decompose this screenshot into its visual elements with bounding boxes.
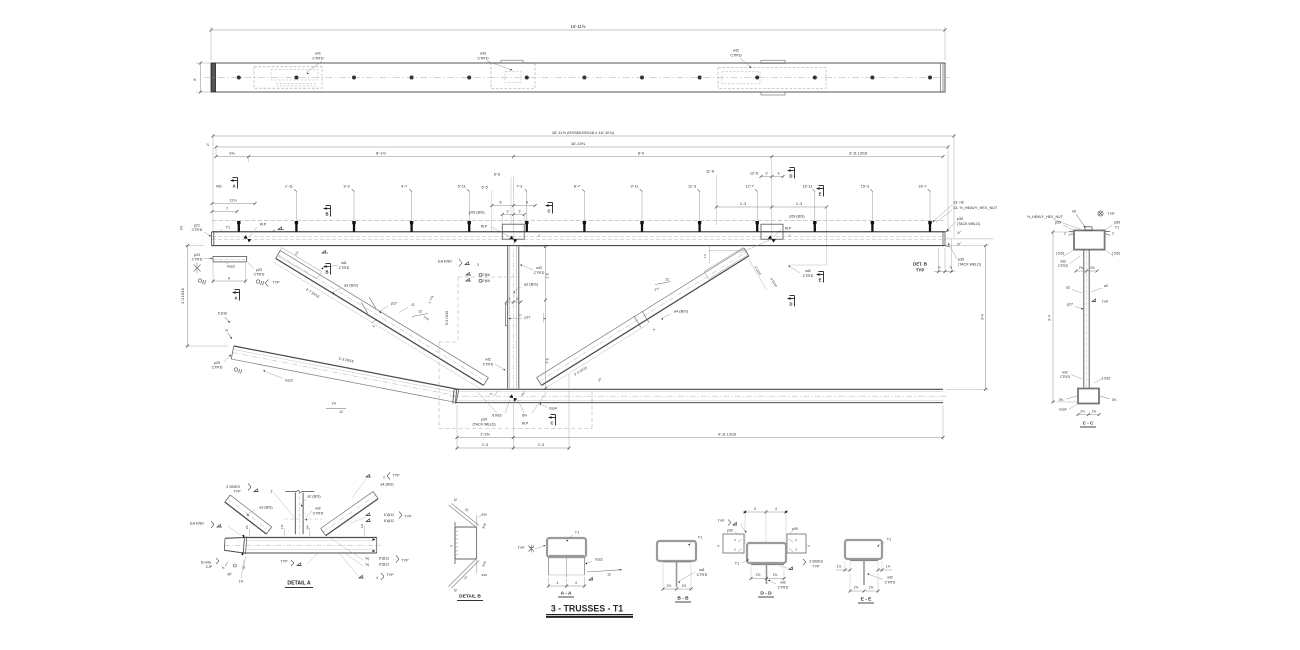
svg-text:CTR'D: CTR'D	[192, 258, 203, 262]
svg-text:9: 9	[228, 277, 230, 281]
svg-text:2: 2	[509, 297, 511, 301]
svg-text:9'-11: 9'-11	[630, 185, 638, 189]
svg-text:hss4: hss4	[549, 407, 557, 411]
svg-text:5 3/16: 5 3/16	[218, 312, 227, 316]
elevation: a4 parallel dimension line with rotated dim 3'-4 15/16	[544, 324, 648, 389]
svg-text:2⅞: 2⅞	[667, 584, 672, 588]
svg-text:3/16: 3/16	[481, 573, 487, 577]
detail A: bottom right weld note	[359, 577, 364, 579]
svg-text:1'-3: 1'-3	[796, 202, 802, 206]
detail A: hss3 stub at left	[225, 537, 244, 540]
svg-text:TYP: TYP	[405, 515, 413, 519]
svg-text:p35: p35	[957, 217, 963, 221]
svg-text:TYP: TYP	[718, 519, 726, 523]
svg-text:wt2: wt2	[1062, 371, 1067, 375]
elevation: member hss3 sloping left	[231, 359, 456, 403]
elevation: vertical dim 1'-6 / 2'-6 right of hanger	[521, 246, 548, 248]
elevation: overall dim 16'-11 5/8 (HSS8X4X5/16 x 16'-10 3/4)	[213, 135, 954, 137]
section D-D: top dim 4 | 4	[744, 510, 746, 544]
svg-text:⅞: ⅞	[206, 143, 209, 147]
elevation: weld all-around symbol at left (K)	[194, 265, 198, 269]
svg-text:3'-3: 3'-3	[343, 185, 349, 189]
svg-text:TYP: TYP	[281, 560, 289, 564]
elevation: wt2 stiffener outline on a4	[704, 248, 748, 280]
svg-text:2'@6: 2'@6	[482, 273, 490, 277]
svg-text:7'-6: 7'-6	[546, 358, 550, 364]
svg-text:E: E	[819, 278, 822, 283]
elevation: hanger dim 2|2	[506, 301, 520, 303]
svg-text:⅛: ⅛	[222, 566, 225, 570]
svg-text:a4 (B/S): a4 (B/S)	[674, 310, 689, 314]
svg-text:6"@12: 6"@12	[379, 557, 389, 561]
svg-text:4: 4	[754, 507, 756, 511]
elevation: W.P extension line right of chord end	[945, 238, 993, 240]
svg-text:CTR'D: CTR'D	[697, 573, 708, 577]
svg-text:hss2: hss2	[595, 558, 603, 562]
svg-text:D: D	[789, 302, 792, 307]
section C-C: p59 side plate wings	[1069, 231, 1074, 233]
svg-text:4: 4	[450, 545, 454, 547]
svg-text:6'-6: 6'-6	[494, 173, 500, 177]
svg-text:15'-3: 15'-3	[861, 185, 869, 189]
svg-text:wt1: wt1	[699, 568, 705, 572]
section C-C: weld 3/8 TYP	[1092, 301, 1096, 303]
svg-text:4: 4	[575, 581, 577, 585]
svg-text:p23: p23	[194, 253, 200, 257]
elevation: circle-parallel symbol with TYP	[256, 280, 259, 283]
elevation: section flag D upper	[787, 169, 791, 172]
svg-text:TYP: TYP	[387, 573, 395, 577]
svg-text:8⅜: 8⅜	[522, 414, 527, 418]
svg-text:16'-11⅝ (HSS8X4X5/16 x 16'-10¾: 16'-11⅝ (HSS8X4X5/16 x 16'-10¾)	[552, 130, 615, 135]
svg-text:4⅝: 4⅝	[180, 225, 184, 230]
elevation: vertical dim 2'-3 15/16 left side	[185, 245, 204, 247]
detail A: vertical a2 section	[294, 493, 296, 535]
svg-text:E: E	[819, 192, 822, 197]
plan view: splice tabs at wt2	[761, 60, 785, 63]
section D-D: dim 2 7/8 | 2 7/8	[750, 566, 752, 580]
svg-text:45°: 45°	[227, 573, 233, 577]
svg-text:9'-11 13/16: 9'-11 13/16	[718, 433, 736, 437]
section D-D: 3 SIDES TYP weld	[789, 569, 793, 571]
svg-text:2: 2	[1112, 232, 1114, 236]
svg-text:3: 3	[477, 263, 479, 267]
detail A: bottom chord bar	[244, 537, 377, 539]
elevation: weld flag near left W.P	[278, 229, 284, 231]
svg-text:6: 6	[500, 201, 502, 205]
svg-text:(TACK WELD): (TACK WELD)	[958, 263, 981, 267]
svg-text:8'-7: 8'-7	[574, 185, 580, 189]
elevation: right gusset plate p59 box	[761, 224, 783, 239]
svg-text:3/16: 3/16	[481, 513, 487, 517]
svg-text:5'-11: 5'-11	[458, 185, 466, 189]
elevation: weld flag above a3	[322, 252, 328, 254]
svg-text:(TACK WELD): (TACK WELD)	[957, 222, 980, 226]
svg-text:1⅝: 1⅝	[239, 580, 244, 584]
svg-text:2⅞: 2⅞	[1080, 410, 1085, 414]
svg-text:p59 (B/S): p59 (B/S)	[469, 211, 484, 215]
svg-text:13'-11: 13'-11	[802, 185, 812, 189]
elevation: stud bolts n6 on chord (13x)	[238, 222, 240, 232]
section A-A: slope 12 marker	[587, 570, 620, 572]
plan view: HSS tube T1 outline	[211, 63, 945, 92]
svg-text:TYP: TYP	[916, 268, 925, 273]
plan view: bolt holes n6 (13x)	[237, 76, 241, 80]
svg-text:B: B	[325, 270, 328, 275]
svg-text:t2: t2	[454, 498, 457, 502]
plan view: dashed plate region wt3	[491, 64, 535, 89]
svg-text:3: 3	[271, 490, 273, 494]
section C-C: dim 2 5/8 2 5/8	[1076, 270, 1097, 272]
svg-text:a3 (B/S): a3 (B/S)	[344, 284, 359, 288]
svg-text:EA END: EA END	[438, 260, 452, 264]
section C-C: vertical dim 3'-4	[1051, 231, 1074, 233]
elevation: dim 7/8 7/8 below right end	[938, 248, 940, 273]
svg-text:C: C	[550, 421, 553, 426]
svg-text:1'-3: 1'-3	[538, 443, 544, 447]
elevation: left gusset plate p59 box	[502, 224, 524, 239]
svg-text:2⅞: 2⅞	[854, 586, 859, 590]
svg-text:4: 4	[557, 581, 559, 585]
svg-text:12: 12	[418, 310, 422, 314]
section B-B: wt1 tee below	[663, 561, 691, 563]
elevation: right side vertical dim 3'-4	[946, 245, 989, 247]
svg-text:2⅞: 2⅞	[1092, 410, 1097, 414]
svg-text:p59: p59	[1055, 221, 1061, 225]
elevation: section flag A lower	[232, 291, 236, 294]
svg-text:⅞: ⅞	[938, 266, 941, 270]
svg-text:DET. B: DET. B	[913, 262, 927, 267]
plan view: left width dim 8	[196, 62, 210, 64]
svg-text:CTR'D: CTR'D	[803, 274, 814, 278]
svg-text:1'-3: 1'-3	[740, 202, 746, 206]
svg-text:3 - TRUSSES - T1: 3 - TRUSSES - T1	[551, 604, 623, 614]
elevation: dim 11 7/8	[212, 203, 255, 205]
svg-text:1'-11: 1'-11	[285, 185, 293, 189]
svg-text:D: D	[789, 174, 792, 179]
section C-C: top chord tube section	[1074, 230, 1105, 249]
elevation: a3 parallel dimension line	[273, 262, 481, 389]
elevation: left gusset work point	[509, 235, 517, 242]
svg-text:3'-11 13/16: 3'-11 13/16	[849, 152, 867, 156]
elevation: section flag C upper	[545, 204, 549, 207]
svg-text:W.P: W.P	[481, 225, 488, 229]
svg-text:TYP: TYP	[1102, 300, 1109, 304]
elevation: joint line p34 between hss3 and hss4	[453, 389, 454, 404]
svg-text:p27: p27	[1067, 303, 1073, 307]
svg-text:RD: RD	[216, 185, 222, 189]
elevation: dim row 1'-3 5/8 and 9'-11 13/16	[456, 405, 458, 450]
section D-D: side plate left p59	[723, 534, 744, 553]
elevation: top chord right end plate	[942, 232, 944, 246]
svg-text:hss2: hss2	[227, 265, 235, 269]
elevation: top chord left end plate p21	[211, 232, 213, 246]
section D-D: wt2 tee below	[751, 564, 784, 566]
plan view: dashed plate region wt1	[254, 67, 322, 88]
svg-text:3: 3	[766, 172, 768, 176]
svg-text:2⅝: 2⅝	[1090, 266, 1095, 270]
section C-C: bottom chord tube section	[1078, 389, 1099, 404]
svg-text:1⅜: 1⅜	[360, 523, 364, 528]
plan view: left end plate (filled)	[211, 63, 215, 92]
svg-text:hss3: hss3	[285, 379, 293, 383]
detail A: joint line with arrows	[243, 537, 244, 555]
svg-text:C: C	[547, 209, 550, 214]
section C-C: hex nut above box	[1085, 227, 1092, 231]
section A-A: dim 4 | 4	[548, 577, 550, 588]
svg-text:TYP: TYP	[393, 474, 401, 478]
svg-text:wt3: wt3	[1060, 260, 1065, 264]
sheet title: double underline	[546, 614, 633, 616]
elevation: diagonal member a4	[541, 256, 749, 386]
elevation: right gusset dims 1'-3 1'-3	[716, 206, 826, 208]
svg-text:1'-3⅝: 1'-3⅝	[480, 433, 490, 437]
svg-text:4: 4	[807, 545, 811, 547]
svg-text:1⅞: 1⅞	[837, 565, 842, 569]
svg-text:a2 (B/S): a2 (B/S)	[524, 283, 539, 287]
svg-text:W.P: W.P	[260, 223, 267, 227]
svg-text:6'-5: 6'-5	[481, 186, 487, 190]
svg-text:p27: p27	[525, 316, 531, 320]
svg-text:2⅞: 2⅞	[332, 402, 337, 406]
svg-text:12: 12	[607, 573, 611, 577]
svg-text:CTR'D: CTR'D	[312, 57, 324, 61]
svg-text:B-U4a: B-U4a	[201, 561, 211, 565]
section E-E: dim 2 7/8 | 2 7/8	[849, 573, 851, 593]
svg-text:wt2: wt2	[887, 576, 893, 580]
elevation: top chord HSS tube T1	[212, 231, 945, 233]
svg-text:EA END: EA END	[190, 522, 204, 526]
svg-text:6"@12: 6"@12	[384, 519, 394, 523]
detail B: vertical line right	[476, 515, 478, 573]
svg-text:p25: p25	[214, 361, 220, 365]
svg-text:11⅞: 11⅞	[229, 199, 237, 203]
svg-text:p23: p23	[256, 268, 262, 272]
svg-text:8 9/16: 8 9/16	[492, 414, 501, 418]
svg-text:1 5/16: 1 5/16	[1056, 252, 1065, 256]
section A-A: tube T1	[547, 538, 586, 557]
section D-D: tube T1	[747, 543, 786, 563]
section B-B: tube T1	[657, 541, 696, 561]
detail A: extension ticks from member ends	[249, 529, 251, 538]
detail A: top right weld note	[366, 476, 371, 478]
svg-text:TYP: TYP	[234, 490, 242, 494]
svg-text:p34: p34	[481, 418, 487, 422]
elevation: circle-parallel symbol left	[198, 279, 201, 282]
svg-text:6: 6	[526, 201, 528, 205]
detail A: bar right end arrows	[373, 538, 376, 540]
elevation: plate p27 on hanger	[505, 304, 507, 326]
svg-text:CTR'D: CTR'D	[192, 228, 203, 232]
svg-text:wt2: wt2	[733, 49, 739, 53]
svg-text:6"@12: 6"@12	[379, 563, 389, 567]
svg-text:2⅞: 2⅞	[682, 584, 687, 588]
elevation: hanger member a2 (vertical)	[507, 246, 509, 389]
elevation: dim 9 under hss2	[212, 263, 214, 284]
detail B: diagonal braces t2	[449, 505, 477, 528]
svg-text:DETAIL B: DETAIL B	[459, 594, 481, 600]
svg-text:4: 4	[717, 545, 721, 547]
svg-text:p21: p21	[194, 224, 200, 228]
elevation: section flag E lower	[816, 273, 820, 276]
svg-text:8'-0: 8'-0	[638, 151, 645, 156]
svg-text:CTR'D: CTR'D	[534, 271, 545, 275]
svg-text:CTR'D: CTR'D	[730, 54, 742, 58]
svg-text:W.P: W.P	[522, 422, 529, 426]
svg-text:9⅞: 9⅞	[229, 152, 235, 156]
elevation: member hss2 below chord	[213, 257, 247, 262]
svg-text:p59 (B/S): p59 (B/S)	[789, 215, 804, 219]
elevation: section flag C lower	[548, 416, 552, 419]
svg-text:T1: T1	[735, 562, 739, 566]
section C-C: dim lines under top box	[1063, 250, 1074, 257]
svg-text:16'-7: 16'-7	[918, 185, 926, 189]
svg-text:E - E: E - E	[861, 597, 872, 603]
svg-text:wt2: wt2	[780, 581, 786, 585]
section A-A: hss2 channel below	[548, 557, 550, 575]
elevation: dim row 9 7/8 | 8'-1 1/2 | 8'-0 | 3'-11 13/16	[216, 156, 943, 158]
detail A: right mid weld note 6@12	[366, 515, 371, 517]
svg-text:wt1: wt1	[315, 52, 321, 56]
svg-text:12: 12	[339, 410, 343, 414]
elevation: section flag A upper	[230, 179, 234, 182]
elevation: slope marker on hss3	[326, 408, 346, 410]
svg-text:11'-8: 11'-8	[706, 170, 714, 174]
elevation: left gusset dim 3|3	[502, 214, 524, 216]
svg-text:TYP: TYP	[402, 559, 410, 563]
svg-text:a2 (B/S): a2 (B/S)	[307, 495, 320, 499]
elevation: section flag B upper	[323, 207, 327, 210]
section E-E: dims 1 7/8 left right	[844, 561, 846, 572]
svg-text:a3 (B/S): a3 (B/S)	[259, 506, 272, 510]
svg-text:12'-7: 12'-7	[746, 185, 754, 189]
svg-text:3 SIDES: 3 SIDES	[226, 485, 240, 489]
svg-text:a2: a2	[1066, 286, 1070, 290]
svg-text:wt2: wt2	[485, 358, 491, 362]
detail A: W.P dashes at centre	[284, 518, 322, 520]
elevation: DET.A dashed boundary	[438, 342, 440, 429]
elevation: dim row 1'-3 | 1'-3	[457, 447, 569, 449]
svg-text:CJP: CJP	[206, 565, 213, 569]
svg-text:12'-6: 12'-6	[750, 172, 758, 176]
elevation: wt1 stiffener outline on a3	[277, 248, 322, 280]
elevation: section flag E upper	[816, 187, 820, 190]
svg-text:3: 3	[507, 210, 509, 214]
svg-text:5'-2 15/16: 5'-2 15/16	[445, 311, 449, 325]
svg-text:wt2: wt2	[805, 269, 811, 273]
detail B: plate box with welds	[455, 527, 477, 559]
svg-text:B: B	[325, 212, 328, 217]
svg-text:T1: T1	[1115, 226, 1119, 230]
svg-text:T1: T1	[226, 226, 230, 230]
svg-text:16'-10¾: 16'-10¾	[571, 141, 586, 146]
svg-text:CTR'D: CTR'D	[212, 366, 223, 370]
elevation: perpendicular ticks across a4	[634, 316, 641, 328]
svg-text:3: 3	[519, 210, 521, 214]
svg-text:A: A	[234, 296, 237, 301]
svg-text:T1: T1	[698, 536, 702, 540]
svg-text:4'-7: 4'-7	[401, 185, 407, 189]
svg-text:7'-3: 7'-3	[516, 185, 522, 189]
elevation: circle-parallel symbol at hss3	[234, 368, 237, 371]
svg-text:B - B: B - B	[677, 596, 689, 602]
elevation: dim 1 7/8 below chord near a4	[708, 250, 744, 252]
plan view: right end plate	[940, 63, 942, 92]
svg-text:a2: a2	[1104, 284, 1108, 288]
plan view: dimension line 16'-11 5/8	[211, 29, 945, 31]
svg-text:1 5/16: 1 5/16	[1102, 377, 1111, 381]
svg-text:2'@6: 2'@6	[482, 279, 490, 283]
section E-E: tube T1	[845, 540, 882, 559]
svg-text:CTR'D: CTR'D	[1060, 375, 1071, 379]
svg-text:2: 2	[383, 476, 385, 480]
svg-text:3: 3	[778, 172, 780, 176]
section D-D: side plate right p59	[787, 534, 806, 553]
svg-text:1⅜: 1⅜	[305, 525, 309, 530]
svg-text:2⅞: 2⅞	[773, 573, 778, 577]
svg-text:A - A: A - A	[561, 591, 572, 597]
svg-text:2⅞: 2⅞	[756, 573, 761, 577]
svg-text:1⅞: 1⅞	[886, 565, 891, 569]
svg-text:8: 8	[193, 78, 197, 80]
svg-text:CTR'D: CTR'D	[477, 57, 489, 61]
svg-text:6"@12: 6"@12	[384, 513, 394, 517]
svg-text:DETAIL A: DETAIL A	[287, 581, 310, 587]
elevation: bottom chord hss4	[455, 388, 943, 390]
svg-text:TYP: TYP	[1108, 212, 1116, 216]
elevation: top chord hidden line (deck) dashed	[212, 220, 945, 222]
svg-text:t2: t2	[412, 303, 415, 307]
svg-text:p35: p35	[958, 258, 964, 262]
detail A: diagonal a4 section	[326, 499, 378, 536]
svg-text:1⅜: 1⅜	[280, 524, 284, 529]
elevation: bottom joint work point	[509, 394, 517, 401]
svg-text:12: 12	[665, 278, 669, 282]
svg-text:CTR'D: CTR'D	[1058, 264, 1069, 268]
svg-text:CTR'D: CTR'D	[339, 266, 350, 270]
svg-text:hss4: hss4	[1059, 408, 1066, 412]
svg-text:T1: T1	[575, 531, 579, 535]
elevation: left work point marker	[243, 235, 251, 242]
svg-text:2'-3 15/16: 2'-3 15/16	[181, 288, 185, 304]
svg-text:3⅝: 3⅝	[1059, 398, 1064, 402]
svg-text:⅞: ⅞	[949, 266, 952, 270]
elevation: leader lines at bottom joint	[478, 393, 497, 414]
elevation: section flag D lower	[787, 297, 791, 300]
svg-text:CTR'D: CTR'D	[885, 581, 896, 585]
svg-text:p59: p59	[1114, 221, 1120, 225]
svg-text:½_HEAVY_HEX_NUT: ½_HEAVY_HEX_NUT	[1027, 215, 1063, 219]
svg-text:2⅞: 2⅞	[869, 586, 874, 590]
svg-text:1 5/16: 1 5/16	[1112, 252, 1121, 256]
svg-text:n6: n6	[1072, 210, 1076, 214]
svg-text:13- ½_HEAVY_HEX_NUT: 13- ½_HEAVY_HEX_NUT	[953, 206, 998, 210]
svg-text:8'-1½: 8'-1½	[376, 151, 387, 156]
svg-text:2: 2	[517, 297, 519, 301]
svg-text:wt1: wt1	[341, 261, 347, 265]
elevation: dim 16'-10 3/4	[216, 146, 948, 148]
svg-text:TYP: TYP	[273, 281, 281, 285]
section B-B: dim 2 7/8 | 2 7/8	[662, 563, 664, 591]
elevation: right gusset work point	[768, 235, 776, 242]
section C-C: hanger stem a2	[1083, 250, 1085, 389]
svg-text:CTR'D: CTR'D	[778, 586, 789, 590]
plan view: dashed plate region wt2	[718, 68, 826, 89]
svg-text:1⅜: 1⅜	[245, 525, 249, 530]
svg-text:TYP: TYP	[813, 565, 821, 569]
section C-C: dim 2 7/8 2 7/8 bottom	[1078, 414, 1099, 416]
svg-text:3 SIDES: 3 SIDES	[809, 560, 823, 564]
